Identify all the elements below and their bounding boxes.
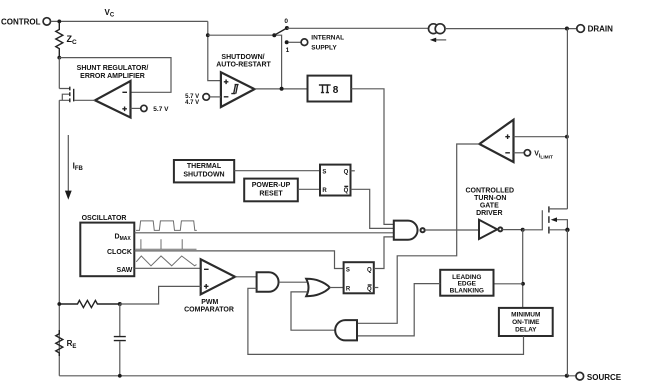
svg-text:PWM: PWM xyxy=(201,299,218,306)
svg-text:5.7 V: 5.7 V xyxy=(153,106,169,113)
waveform CLOCK pulses xyxy=(136,239,197,249)
flip-flop U1 fault latch xyxy=(320,165,351,196)
svg-text:TURN-ON: TURN-ON xyxy=(474,195,506,202)
and-gate PWM gating xyxy=(257,272,279,292)
and-gate current limit blanking mirrored xyxy=(335,320,357,340)
svg-text:POWER-UP: POWER-UP xyxy=(252,182,291,189)
wire error amp output to shunt MOSFET gate xyxy=(74,99,95,101)
wire top rail to current source xyxy=(287,27,429,29)
or-gate reset combine xyxy=(306,279,330,296)
svg-text:R: R xyxy=(346,287,351,293)
terminal SOURCE xyxy=(576,372,622,382)
wire current limit plus input from drain xyxy=(514,136,568,138)
wire left rail upper xyxy=(58,58,60,89)
wire AND output to OR input xyxy=(279,281,307,283)
wire filter node to PWM comparator plus input xyxy=(120,286,201,304)
box power-up reset xyxy=(244,179,298,202)
switch auto-restart selector xyxy=(272,18,289,54)
wire latch2 Qbar stub xyxy=(374,287,379,289)
wire divider output down to NAND input 1 xyxy=(351,89,394,225)
wire feedback loop to error amp inverting input xyxy=(59,58,171,93)
node below Zc xyxy=(57,56,61,60)
svg-text:THERMAL: THERMAL xyxy=(187,163,222,170)
terminal 5.7V reference xyxy=(141,105,169,113)
flip-flop U2 PWM latch xyxy=(344,262,374,293)
node capacitor bottom junction xyxy=(118,374,122,378)
svg-text:0: 0 xyxy=(284,18,288,25)
wire top rail to DRAIN xyxy=(445,28,577,30)
wire PWM comparator output to AND gate xyxy=(235,276,257,278)
wire CLOCK to latch2 S xyxy=(134,251,343,269)
wire LEB sense tap xyxy=(494,283,523,285)
wire noninverting input to 5.7V reference xyxy=(131,107,141,109)
wire Vc from CONTROL to bend at shutdown branch xyxy=(51,20,208,22)
wire Vc branch down to shutdown comparator plus input xyxy=(208,21,221,80)
current source internal supply xyxy=(429,24,447,42)
op-amp shunt regulator / error amplifier xyxy=(77,65,149,118)
nand-gate drive combine xyxy=(394,221,425,240)
svg-text:MINIMUM: MINIMUM xyxy=(511,311,540,318)
box thermal shutdown xyxy=(174,160,234,182)
wire latch2 Q to NAND input 4 xyxy=(374,237,394,269)
wire switch contact 1 to internal supply xyxy=(289,41,301,43)
node power MOSFET source junction xyxy=(565,228,569,232)
node switch common on comparator output xyxy=(280,87,284,91)
wire power-up reset to latch R xyxy=(298,188,320,190)
wire drain vertical xyxy=(566,29,568,209)
svg-text:CONTROL: CONTROL xyxy=(1,17,41,26)
svg-text:Q: Q xyxy=(344,170,349,176)
waveform SAW triangle wave xyxy=(136,256,196,266)
buffer controlled turn-on gate driver xyxy=(465,188,514,239)
svg-text:ERROR AMPLIFIER: ERROR AMPLIFIER xyxy=(80,73,145,80)
wire DMAX to NAND input 3 xyxy=(134,232,394,234)
svg-text:8: 8 xyxy=(333,85,339,96)
wire IFB arrow current indicator xyxy=(65,135,84,200)
svg-text:RESET: RESET xyxy=(259,191,283,198)
node capacitor top junction xyxy=(118,302,122,306)
svg-text:DRIVER: DRIVER xyxy=(476,210,502,217)
wire SAW to PWM comparator xyxy=(134,267,200,269)
wire power MOSFET source down to rail xyxy=(566,230,568,376)
wire bottom AND output to OR lower input xyxy=(291,292,335,330)
resistor feedback filter xyxy=(59,300,120,307)
wire bottom source rail xyxy=(59,375,576,377)
wire current limit minus input to VILIMIT terminal xyxy=(514,152,525,154)
wire current limit output to lower AND input xyxy=(357,144,479,323)
wire gate node down to minimum delay xyxy=(522,230,524,308)
wire to switch common xyxy=(208,35,282,89)
box leading edge blanking xyxy=(440,270,493,296)
svg-text:ON-TIME: ON-TIME xyxy=(512,319,540,326)
svg-text:SAW: SAW xyxy=(116,267,132,274)
divider block Pi 8 xyxy=(308,76,352,102)
svg-text:DRAIN: DRAIN xyxy=(588,25,614,34)
wire shutdown comparator output to divider xyxy=(255,88,308,90)
svg-text:COMPARATOR: COMPARATOR xyxy=(184,307,234,314)
wire left rail long vertical xyxy=(58,100,60,376)
transistor shunt MOSFET xyxy=(59,87,73,103)
box oscillator xyxy=(80,215,134,276)
terminal INTERNAL SUPPLY xyxy=(301,34,344,51)
svg-text:BLANKING: BLANKING xyxy=(450,287,484,294)
svg-text:S: S xyxy=(346,267,350,273)
terminal CONTROL xyxy=(1,17,51,26)
svg-text:SHUTDOWN: SHUTDOWN xyxy=(183,172,224,179)
node drain junction xyxy=(565,27,569,31)
node control junction xyxy=(57,20,61,24)
wire minimum delay output loop to PWM AND input xyxy=(248,288,524,354)
node RE top junction xyxy=(57,302,61,306)
terminal VILIMIT xyxy=(524,150,553,161)
svg-text:Q: Q xyxy=(344,188,349,194)
box minimum on-time delay xyxy=(499,308,553,336)
wire latch Qbar to NAND input 2 xyxy=(351,189,394,228)
resistor Zc xyxy=(56,21,77,57)
svg-text:4.7 V: 4.7 V xyxy=(185,100,199,106)
transistor power MOSFET xyxy=(549,206,568,233)
svg-text:1: 1 xyxy=(286,47,290,54)
op-amp PWM comparator xyxy=(184,259,235,313)
node source rail junction xyxy=(565,374,569,378)
svg-text:CLOCK: CLOCK xyxy=(107,249,132,256)
svg-text:OSCILLATOR: OSCILLATOR xyxy=(82,215,127,222)
wire driver output to gate node xyxy=(502,229,522,231)
node leading edge blanking junction xyxy=(521,282,525,286)
svg-text:CONTROLLED: CONTROLLED xyxy=(465,188,514,195)
svg-text:R: R xyxy=(322,188,327,194)
svg-text:GATE: GATE xyxy=(480,202,499,209)
wire latch Q stub xyxy=(351,170,355,172)
svg-text:AUTO-RESTART: AUTO-RESTART xyxy=(216,62,271,69)
svg-text:S: S xyxy=(322,170,326,176)
wire OR output to latch2 R xyxy=(330,287,344,289)
waveform DMAX square wave xyxy=(136,221,197,231)
resistor RE xyxy=(56,330,77,356)
comparator shutdown/auto-restart xyxy=(216,54,271,107)
node gate drive junction xyxy=(521,228,525,232)
svg-text:SOURCE: SOURCE xyxy=(587,373,622,382)
svg-text:Q: Q xyxy=(367,267,372,273)
wire gate node to power MOSFET gate xyxy=(523,210,543,230)
node drain sense junction xyxy=(565,135,569,139)
terminal DRAIN xyxy=(577,25,613,34)
wire thermal shutdown to latch S xyxy=(234,170,320,172)
wire NAND output to gate driver xyxy=(425,229,479,231)
svg-text:SHUTDOWN/: SHUTDOWN/ xyxy=(221,54,264,61)
svg-text:SHUNT REGULATOR/: SHUNT REGULATOR/ xyxy=(77,65,149,72)
node shutdown branch xyxy=(206,33,210,37)
svg-text:DELAY: DELAY xyxy=(515,326,537,333)
svg-text:Q: Q xyxy=(367,287,372,293)
wire LEB output to lower AND input xyxy=(357,284,440,336)
capacitor filter xyxy=(114,304,126,376)
comparator current limit xyxy=(479,120,513,162)
terminal 5.7V/4.7V threshold input xyxy=(185,94,221,106)
svg-text:INTERNAL: INTERNAL xyxy=(311,34,344,41)
svg-text:SUPPLY: SUPPLY xyxy=(311,45,337,52)
